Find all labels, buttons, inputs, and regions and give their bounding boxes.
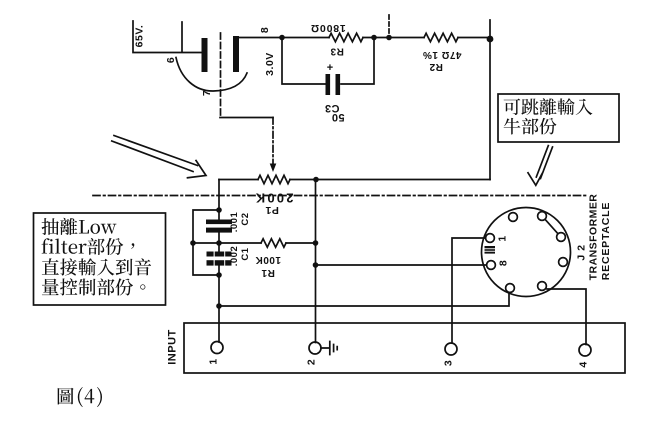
input terminal strip box: [184, 323, 625, 373]
wire 65V supply lead: [133, 21, 201, 53]
node loop left mid: [190, 240, 196, 246]
wire grid top lead: [181, 22, 183, 52]
wire bus to P1: [316, 179, 490, 181]
receptacle J2 shell: [482, 208, 571, 297]
node mid bus: [386, 35, 392, 41]
resistor R3 zigzag: [329, 33, 363, 41]
callout text box1l1: [42, 218, 117, 235]
input terminal 3: [445, 343, 457, 355]
potentiometer P1 zigzag: [258, 175, 290, 183]
callout text box1l3: [42, 258, 151, 275]
node R3-C3 right: [371, 35, 377, 41]
callout text box2l2: [504, 118, 557, 135]
capacitor C2 plates: [206, 220, 232, 225]
svg-text:R1: R1: [261, 267, 275, 278]
annotation arrow 2: [528, 146, 553, 186]
node loop bottom: [216, 272, 222, 278]
wire cathode to wiper: [220, 117, 273, 119]
svg-text:1: 1: [496, 235, 508, 241]
svg-text:3: 3: [442, 360, 454, 366]
svg-text:8: 8: [259, 27, 271, 33]
receptacle pin 5: [538, 282, 547, 291]
node main-R1: [216, 240, 222, 246]
svg-text:7: 7: [201, 90, 213, 96]
svg-text:50: 50: [331, 111, 344, 123]
svg-text:INPUT: INPUT: [166, 329, 178, 365]
ground at terminal 2: [321, 342, 337, 355]
wire main vertical upper: [218, 180, 220, 221]
tube V1 grid bar: [202, 38, 208, 72]
wire terminal1 to socket: [219, 294, 509, 307]
wire pin8 horizontal: [316, 264, 487, 266]
receptacle pin 7: [487, 261, 496, 270]
node loop top: [216, 207, 222, 213]
svg-text:6: 6: [165, 57, 177, 63]
wire terminal2 vertical: [315, 180, 317, 343]
wire P1 wiper dash-dot: [272, 118, 274, 165]
svg-text:.002: .002: [229, 246, 240, 267]
svg-text:4: 4: [577, 361, 589, 367]
node pin8 branch: [313, 262, 319, 268]
dashed stub above bus: [388, 15, 390, 35]
input terminal 2: [309, 342, 321, 354]
node main wire306: [216, 303, 222, 309]
svg-text:200K: 200K: [254, 191, 294, 206]
annotation arrow 1: [112, 136, 206, 178]
svg-text:2: 2: [305, 359, 317, 365]
receptacle pin 4: [559, 258, 568, 267]
svg-text:C2: C2: [240, 212, 251, 225]
input terminal 1: [211, 342, 223, 354]
node R1 junction: [313, 240, 319, 246]
wire pin1 to terminal3: [452, 238, 485, 343]
jumper link: [546, 220, 558, 234]
svg-text:3.0V: 3.0V: [264, 52, 276, 76]
svg-text:1800Ω: 1800Ω: [310, 22, 345, 34]
wire right bus vertical: [489, 20, 491, 180]
svg-text:TRANSFORMER: TRANSFORMER: [587, 194, 599, 281]
svg-text:C1: C1: [240, 247, 251, 260]
node bus-right: [487, 36, 494, 43]
wire main vertical lower: [218, 266, 220, 342]
svg-text:J 2: J 2: [575, 244, 587, 260]
svg-text:R3: R3: [330, 46, 344, 57]
resistor R1 zigzag: [261, 239, 286, 247]
figure caption: [58, 387, 102, 407]
wire C3 branch: [282, 38, 374, 85]
receptacle pin 6: [506, 284, 515, 293]
node P1 right: [313, 177, 319, 183]
receptacle pin 1: [509, 213, 518, 222]
svg-text:8: 8: [497, 260, 509, 266]
receptacle pin 2: [538, 212, 547, 221]
wire R1 right: [286, 242, 316, 244]
wire plate bus: [239, 37, 490, 39]
wire P1 left: [219, 179, 258, 181]
svg-text:47Ω 1%: 47Ω 1%: [422, 49, 461, 60]
input terminal 4: [579, 344, 591, 356]
svg-text:.001: .001: [229, 212, 240, 233]
P1 wiper arrowhead: [270, 164, 277, 173]
callout box low-filter: [34, 213, 166, 305]
wire bypass loop: [193, 210, 219, 275]
resistor R2 zigzag: [424, 33, 458, 41]
wire P1 right: [290, 179, 316, 181]
receptacle pin 3: [557, 233, 566, 242]
wire between C2 C1: [218, 233, 220, 252]
tube V1 plate bar: [233, 36, 239, 72]
svg-text:+: +: [327, 62, 333, 74]
svg-text:P1: P1: [265, 204, 279, 216]
receptacle pin 8: [486, 234, 495, 243]
dash-dot separator line: [93, 195, 588, 197]
svg-text:RECEPTACLE: RECEPTACLE: [600, 202, 612, 280]
svg-text:1: 1: [207, 358, 219, 364]
keyway mark: [485, 246, 496, 254]
node plate-R3: [279, 35, 285, 41]
wire R1 left: [193, 242, 261, 244]
svg-text:65V.: 65V.: [133, 25, 145, 48]
callout box jumper note: [498, 94, 619, 142]
wire socket to terminal4: [547, 289, 586, 345]
capacitor C3 plates: [326, 74, 331, 95]
svg-text:R2: R2: [429, 61, 443, 72]
callout text box1l4: [42, 278, 145, 295]
callout text box1l2: [42, 238, 135, 255]
tube V1 cathode dashed: [220, 33, 222, 117]
svg-text:100K: 100K: [255, 254, 281, 265]
tube V1 envelope arc: [176, 58, 247, 92]
callout text box2l1: [504, 98, 593, 115]
capacitor C1 plates: [207, 252, 232, 257]
